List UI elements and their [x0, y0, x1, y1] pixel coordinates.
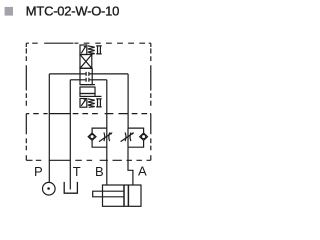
spring a (zigzag right of solenoid a) — [88, 46, 95, 54]
svg-text:MTC-02-W-O-10: MTC-02-W-O-10 — [26, 3, 119, 18]
solenoid box b (bottom of stack) with actuation arrow — [80, 99, 87, 108]
valve position boxes (empty transition boxes) — [80, 85, 102, 97]
svg-text:B: B — [95, 164, 104, 179]
solenoid box a (top of stack) with actuation arrow — [80, 45, 87, 55]
wire from valve port B side — [92, 79, 107, 81]
throttle-check assembly B: bypass loop — [92, 128, 107, 147]
check valve A: seat and ball — [140, 133, 148, 140]
wire B line vertical down to cylinder — [106, 80, 108, 185]
title bullet square — [5, 7, 13, 16]
envelope divider dashed line between upper and lower valve — [26, 113, 151, 115]
valve position box: crossed flow paths X — [80, 55, 92, 69]
port label A — [138, 164, 147, 179]
envelope: right dashed edge — [150, 43, 152, 160]
cylinder piston — [124, 185, 128, 206]
wire T line vertical down into tank — [69, 80, 71, 190]
port label T — [73, 164, 81, 179]
wire A jog below envelope to cylinder — [128, 147, 133, 185]
svg-text:P: P — [34, 164, 43, 179]
wire from valve port to P line — [49, 73, 80, 75]
envelope upper+lower valve: left dashed edge — [25, 43, 27, 160]
envelope: bottom dashed edge — [26, 159, 151, 161]
wire A line through throttle — [127, 128, 129, 147]
svg-text:A: A — [138, 164, 147, 179]
throttle B: adjustment arrow — [99, 132, 113, 141]
spring b (zigzag right of solenoid b) — [88, 99, 95, 107]
port label P — [34, 164, 43, 179]
throttle A: adjustment arrow — [121, 132, 135, 141]
wire from valve port A side — [92, 73, 128, 75]
spring seat box b — [96, 99, 102, 107]
wire from valve port to T line — [70, 79, 80, 81]
pressure source circle with dot — [43, 182, 56, 195]
envelope: top dashed edge — [26, 42, 151, 44]
valve position box: closed centre, blocked ports — [80, 68, 92, 84]
wire P line vertical down to pressure source — [48, 74, 50, 182]
throttle B: restriction arcs — [104, 133, 110, 142]
tank symbol — [64, 182, 77, 193]
svg-text:T: T — [73, 164, 81, 179]
spring seat box a — [96, 46, 102, 54]
throttle-check assembly A: bypass loop — [128, 128, 144, 147]
title text MTC-02-W-O-10 — [26, 3, 119, 18]
throttle A: restriction arcs — [125, 133, 131, 142]
cylinder rod — [93, 191, 124, 197]
check valve B: seat and ball — [88, 133, 96, 140]
wire A drop to throttle assembly — [127, 74, 129, 128]
cylinder barrel — [103, 185, 142, 206]
port label B — [95, 164, 104, 179]
